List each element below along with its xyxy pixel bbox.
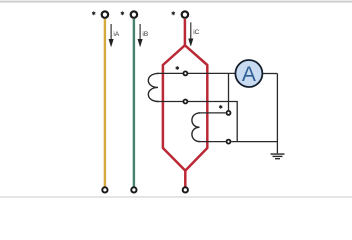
wire: CT2 secondary bottom lead: [199, 141, 226, 143]
wire: ammeter right lead: [262, 73, 277, 75]
polarity asterisk CT1: [176, 66, 179, 70]
phase C conductor top segment (red wire): [184, 19, 187, 45]
polarity asterisk phase B: [121, 11, 124, 15]
polarity asterisk phase C: [172, 11, 175, 15]
ground symbol: [271, 154, 285, 159]
current transformer TA2 secondary winding: [192, 113, 200, 142]
terminal B bottom: [131, 187, 136, 192]
wire: CT1 secondary bottom lead: [157, 102, 237, 142]
terminal C top: [182, 11, 188, 17]
terminal C bottom: [183, 187, 188, 192]
CT2 secondary terminal bottom: [227, 140, 231, 144]
arrow iB current direction: [138, 24, 142, 45]
arrow iA current direction: [109, 24, 113, 45]
ammeter PA: [235, 60, 262, 87]
terminal B top: [131, 11, 137, 17]
wire: CT1 secondary top lead to ammeter: [157, 72, 235, 74]
arrow iC current direction: [189, 22, 193, 44]
wire: bottom node to ground junction: [231, 141, 277, 143]
phase C split loop through both CT primaries (red hexagon wire): [163, 45, 207, 170]
polarity asterisk CT2: [219, 105, 222, 109]
svg-text:iC: iC: [193, 29, 199, 36]
wire: drop from top node to CT2 polarity terminal: [228, 73, 230, 110]
phase B conductor (green wire): [133, 19, 135, 187]
CT1 secondary terminal bottom: [183, 100, 187, 104]
svg-text:A: A: [242, 63, 256, 86]
wire: CT2 secondary top lead: [199, 112, 226, 114]
wire: down to ground: [276, 74, 278, 154]
phase A conductor (yellow wire): [104, 19, 106, 187]
terminal A bottom: [102, 187, 107, 192]
current transformer TA1 secondary winding: [148, 73, 158, 101]
phase C conductor bottom segment (red wire): [184, 171, 187, 187]
svg-text:iA: iA: [113, 31, 119, 38]
CT2 secondary terminal top (polarity): [227, 111, 231, 115]
terminal A top: [102, 11, 108, 17]
polarity asterisk phase A: [92, 11, 95, 15]
svg-text:iB: iB: [142, 31, 148, 38]
CT1 secondary terminal top (polarity): [183, 71, 187, 75]
